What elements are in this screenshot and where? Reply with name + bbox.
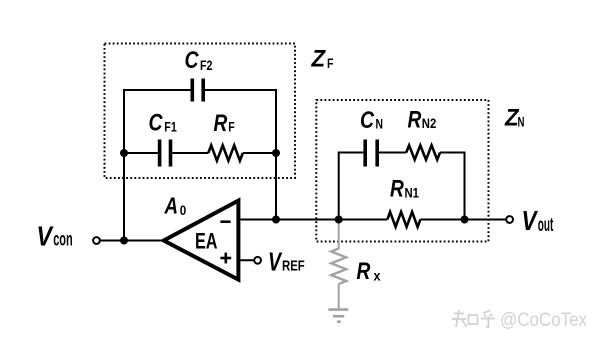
junction node V_con / Z_F bbox=[120, 237, 128, 245]
label C_F2 bbox=[185, 47, 213, 74]
label A_0 bbox=[164, 193, 187, 219]
wire Z_F top branch bbox=[123, 89, 191, 91]
wire inverting input to feedback node bbox=[238, 219, 340, 221]
label R_N2 bbox=[408, 107, 437, 134]
resistor R_x (gray) bbox=[331, 249, 346, 285]
junction node Z_N left / R_x bbox=[335, 216, 343, 224]
svg-text:C: C bbox=[185, 47, 200, 74]
svg-text:@CoCoTex: @CoCoTex bbox=[500, 310, 587, 331]
svg-text:C: C bbox=[149, 110, 164, 137]
svg-text:0: 0 bbox=[180, 203, 187, 218]
svg-text:R: R bbox=[214, 110, 228, 137]
svg-text:REF: REF bbox=[282, 258, 305, 275]
junction node Z_N right / V_out bbox=[461, 216, 469, 224]
wire Z_F left vertical (feedback to V_con node) bbox=[123, 90, 125, 241]
svg-text:con: con bbox=[53, 230, 72, 251]
svg-text:F1: F1 bbox=[164, 119, 177, 135]
wire Z_N right vertical bbox=[464, 153, 466, 221]
svg-text:N1: N1 bbox=[405, 185, 420, 201]
label R_N1 bbox=[390, 176, 419, 203]
svg-text:out: out bbox=[538, 215, 554, 236]
wire Z_N left vertical bbox=[338, 153, 340, 221]
wire R_N1 to V_out terminal bbox=[420, 219, 506, 221]
resistor R_N2 bbox=[406, 145, 440, 159]
label R_F bbox=[214, 110, 236, 137]
svg-text:N: N bbox=[518, 113, 525, 129]
label V_REF bbox=[268, 246, 305, 276]
svg-text:R: R bbox=[408, 107, 422, 134]
svg-text:V: V bbox=[37, 220, 54, 251]
terminal V_con bbox=[93, 237, 100, 244]
label C_F1 bbox=[149, 110, 177, 137]
wire non-inverting input to V_REF terminal bbox=[238, 259, 254, 261]
svg-text:F: F bbox=[327, 55, 334, 71]
svg-text:F2: F2 bbox=[200, 57, 213, 73]
label V_out bbox=[522, 205, 554, 236]
wire bottom branch through R_N1 to V_out bbox=[340, 219, 387, 221]
svg-text:R: R bbox=[357, 258, 371, 285]
wire resistor to ground symbol (gray) bbox=[338, 284, 340, 309]
op-amp plus sign (non-inverting input) bbox=[220, 253, 231, 264]
terminal V_out bbox=[506, 216, 513, 223]
terminal V_REF bbox=[254, 257, 261, 264]
svg-text:F: F bbox=[228, 119, 235, 135]
wire Z_F bottom branch bbox=[123, 152, 158, 154]
svg-text:V: V bbox=[268, 246, 283, 276]
op-amp EA (left-pointing triangle) bbox=[164, 201, 239, 280]
wire Z_N top branch bbox=[338, 152, 364, 154]
svg-text:Z: Z bbox=[311, 46, 327, 73]
wire Z_F right vertical (down to inverting-input node) bbox=[275, 90, 277, 220]
svg-text:A: A bbox=[164, 193, 178, 219]
capacitor C_F1 bbox=[160, 140, 171, 167]
label C_N bbox=[360, 107, 383, 134]
junction dot Z_F bottom-right bbox=[272, 149, 280, 157]
ground bbox=[328, 310, 348, 322]
watermark 乎 glyph bbox=[481, 311, 495, 328]
resistor R_F bbox=[208, 145, 243, 160]
svg-text:C: C bbox=[360, 107, 375, 134]
capacitor C_N bbox=[365, 140, 377, 167]
svg-text:N: N bbox=[376, 116, 384, 132]
resistor R_N1 bbox=[387, 212, 420, 227]
svg-text:V: V bbox=[522, 205, 539, 236]
junction node inverting input / Z_F bbox=[272, 216, 280, 224]
watermark 知 glyph bbox=[452, 310, 478, 327]
op-amp minus sign (inverting input) bbox=[220, 220, 230, 223]
wire R_x to ground (gray) bbox=[338, 220, 340, 250]
svg-text:N2: N2 bbox=[422, 115, 437, 131]
dotted box Z_F network bbox=[105, 44, 296, 179]
label V_con bbox=[37, 220, 73, 251]
svg-text:EA: EA bbox=[195, 229, 218, 254]
wire V_con to op-amp output apex bbox=[100, 240, 165, 242]
label Z_N bbox=[504, 104, 524, 131]
label Z_F bbox=[311, 46, 334, 73]
junction dot Z_F bottom-left bbox=[120, 149, 128, 157]
label R_x bbox=[357, 258, 381, 285]
dotted box Z_N network bbox=[316, 100, 488, 242]
svg-text:R: R bbox=[390, 176, 404, 203]
capacitor C_F2 bbox=[192, 79, 203, 102]
svg-text:x: x bbox=[374, 268, 381, 284]
